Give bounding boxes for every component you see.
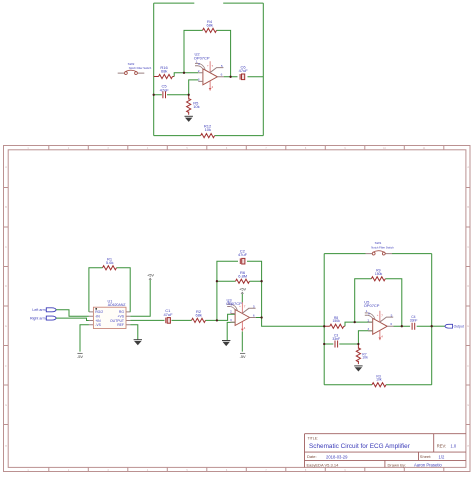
- wire: U3 output to third stage: [256, 318, 324, 327]
- wire: U5 output through C4: [394, 325, 432, 327]
- wire: outer box bottom edge: [154, 135, 264, 137]
- svg-text:AD620ANZ: AD620ANZ: [108, 303, 127, 307]
- ground below R7: [354, 366, 362, 372]
- svg-text:OP07CP: OP07CP: [226, 301, 242, 306]
- connector Left arm: [46, 308, 56, 312]
- svg-text:Notch Filter Switch: Notch Filter Switch: [129, 66, 152, 70]
- wire: outer box right edge: [262, 3, 264, 136]
- svg-text:Drawn By:: Drawn By:: [388, 462, 406, 467]
- outer border: [4, 146, 471, 472]
- resistor R3: [372, 383, 386, 387]
- svg-text:REF: REF: [117, 323, 124, 327]
- svg-text:SW1: SW1: [375, 241, 382, 245]
- wire: R16 to U2 pin2: [174, 73, 198, 77]
- svg-text:-VS: -VS: [95, 323, 101, 327]
- svg-text:Date:: Date:: [307, 454, 317, 459]
- svg-text:Output: Output: [454, 325, 464, 329]
- svg-text:TITLE:: TITLE:: [308, 437, 319, 441]
- junction at C4 right / stage3 loop: [431, 325, 433, 327]
- svg-text:Sheet:: Sheet:: [420, 454, 432, 459]
- ground at U1 REF: [134, 340, 142, 346]
- junction at C5 right / R5 top: [188, 94, 190, 96]
- switch SW1: [366, 251, 393, 255]
- svg-text:C: C: [5, 246, 7, 249]
- wire: REF to ground: [130, 325, 137, 340]
- resistor R9: [371, 277, 385, 281]
- wire: RG loop: [89, 268, 130, 312]
- capacitor C6: [239, 74, 246, 80]
- switch SW2: [118, 70, 145, 74]
- svg-text:47uF: 47uF: [238, 252, 248, 257]
- junction at U3 output: [260, 316, 262, 318]
- svg-text:47uF: 47uF: [239, 68, 249, 73]
- resistor R4: [203, 28, 217, 32]
- svg-text:Left arm: Left arm: [32, 308, 45, 312]
- svg-text:G: G: [467, 404, 469, 407]
- svg-text:1/2: 1/2: [439, 454, 445, 459]
- wire: R8 to U5 pin2: [345, 322, 373, 326]
- svg-text:D: D: [5, 285, 7, 288]
- svg-text:D: D: [467, 285, 469, 288]
- svg-text:1.0: 1.0: [451, 443, 457, 448]
- top border ticks: [49, 146, 444, 150]
- wire: U3 V- to -5V: [241, 332, 243, 352]
- IC U1 AD620ANZ: [89, 312, 130, 325]
- junction at R8 left / stage3 loop: [323, 325, 325, 327]
- svg-text:10k: 10k: [205, 127, 211, 132]
- svg-text:68k: 68k: [195, 313, 201, 318]
- wire: +5V to U3: [241, 294, 243, 302]
- wire: C2/R6 feedback loop: [217, 261, 262, 320]
- svg-text:47uF: 47uF: [163, 312, 173, 317]
- resistor R8: [324, 325, 345, 327]
- svg-text:REV:: REV:: [437, 443, 446, 448]
- wire: Left arm to U1 -IN: [56, 310, 89, 316]
- capacitor C1: [165, 317, 172, 323]
- op-amp U2: [195, 59, 224, 90]
- svg-text:150k: 150k: [375, 272, 383, 276]
- svg-text:5.6k: 5.6k: [106, 260, 114, 265]
- junction at C3 left / stage3 loop: [323, 343, 325, 345]
- capacitor C4: [411, 323, 416, 330]
- wire: U5 pin3 down to C3 net: [358, 331, 372, 344]
- svg-text:SW2: SW2: [128, 62, 135, 66]
- TOP BOX CIRCUIT: [118, 3, 264, 138]
- svg-text:68k: 68k: [206, 23, 212, 28]
- junction at R2 / U3 input / C2-R6 loop: [216, 319, 218, 321]
- junction at U5 output / R9 loop: [401, 325, 403, 327]
- capacitor C3: [334, 340, 339, 347]
- left border ticks: [4, 188, 9, 425]
- svg-text:150k: 150k: [333, 319, 341, 323]
- +5V flag U1: [147, 272, 154, 279]
- svg-text:68k: 68k: [161, 69, 167, 74]
- wire: to Output connector: [432, 325, 445, 327]
- svg-text:33nF: 33nF: [410, 318, 418, 322]
- svg-text:Schematic Circuit for ECG Ampl: Schematic Circuit for ECG Amplifier: [309, 443, 411, 450]
- svg-text:H: H: [5, 445, 7, 448]
- junction at U2 output / R4 loop: [229, 76, 231, 78]
- junction at U2 pin2 / R4 loop: [183, 72, 185, 74]
- svg-text:6.8M: 6.8M: [238, 274, 247, 279]
- wire: U2 output to C6: [224, 76, 264, 78]
- svg-text:EasyEDA V5.3.14: EasyEDA V5.3.14: [307, 462, 340, 467]
- bottom border ticks: [49, 467, 444, 471]
- SHEET FRAME: [4, 146, 471, 472]
- svg-text:C: C: [467, 246, 469, 249]
- frame reference numerals: [5, 147, 469, 472]
- junction at C5 left / box edge: [153, 94, 155, 96]
- wire: +VS to +5V: [130, 280, 150, 316]
- svg-text:33nF: 33nF: [332, 337, 340, 341]
- wire: R4 feedback loop: [184, 30, 231, 76]
- wire: C5 net: [154, 94, 189, 96]
- connector Output: [445, 324, 453, 328]
- resistor R5: [188, 95, 190, 115]
- wire: outer box top edge segments: [154, 2, 264, 4]
- junction at R6 left: [216, 280, 218, 282]
- svg-text:10k: 10k: [362, 356, 368, 360]
- -5V flag U3: [240, 353, 246, 359]
- resistor R6: [236, 279, 250, 283]
- svg-text:10k: 10k: [376, 378, 382, 382]
- connector Right arm: [46, 316, 56, 320]
- ground below R5: [185, 116, 193, 122]
- MAIN CIRCUIT: [30, 241, 464, 387]
- junction at U5 pin2 / R9 loop: [354, 321, 356, 323]
- svg-text:47nF: 47nF: [160, 87, 170, 92]
- wire: C3 net: [324, 343, 358, 345]
- resistor R7: [357, 344, 359, 364]
- svg-text:Right arm: Right arm: [30, 317, 46, 321]
- wire: U2 pin3 down to C5 net: [189, 80, 199, 95]
- svg-text:H: H: [467, 445, 469, 448]
- capacitor C2: [239, 258, 246, 264]
- resistor R12: [201, 134, 215, 138]
- wire: R9 feedback loop: [355, 279, 402, 326]
- wire: -VS to -5V: [80, 325, 89, 352]
- op-amp U5: [365, 309, 394, 340]
- inner border: [8, 150, 466, 468]
- wire: outer box left edge: [153, 3, 155, 136]
- svg-text:10k: 10k: [193, 104, 199, 109]
- svg-text:OP07CP: OP07CP: [364, 303, 380, 308]
- wire: U3 pin3 to ground: [227, 322, 235, 340]
- TITLE BLOCK: [305, 434, 466, 468]
- +5V flag U3: [239, 286, 246, 293]
- -5V flag U1: [77, 353, 83, 359]
- op-amp U3: [227, 300, 256, 331]
- svg-text:OP07CP: OP07CP: [194, 55, 210, 60]
- wire: U1 OUTPUT to U3 stage: [130, 314, 235, 320]
- ground at U3 pin3: [222, 341, 230, 347]
- svg-text:2018-03-29: 2018-03-29: [326, 454, 348, 459]
- right border ticks: [466, 188, 470, 425]
- wire: Right arm to U1 +IN: [56, 318, 89, 320]
- svg-text:Notch Filter Switch: Notch Filter Switch: [371, 245, 394, 249]
- capacitor C5: [162, 91, 167, 98]
- junction at R6 right: [260, 280, 262, 282]
- resistor R16: [154, 76, 175, 78]
- wire: third stage outer loop with SW1: [324, 254, 432, 385]
- resistor R2: [192, 318, 206, 322]
- resistor R1 5.6k: [103, 266, 117, 270]
- junction at C3 right / R7 top: [357, 343, 359, 345]
- svg-text:Aaron Prasetio: Aaron Prasetio: [414, 462, 442, 467]
- svg-text:G: G: [5, 404, 7, 407]
